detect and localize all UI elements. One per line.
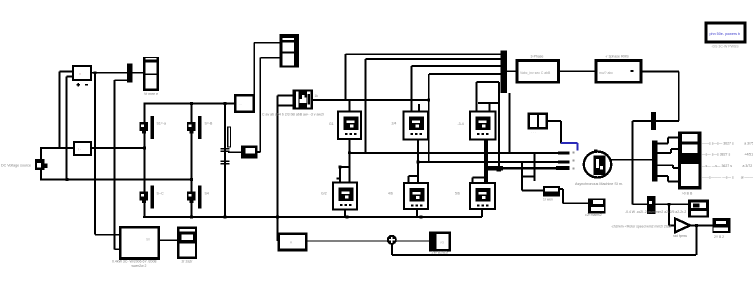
svg-text:3-Phase: 3-Phase bbox=[530, 55, 543, 59]
svg-text:-DS 3C-W PWSS: -DS 3C-W PWSS bbox=[711, 45, 739, 49]
svg-text:v: v bbox=[79, 71, 81, 76]
svg-text:S=-B: S=-B bbox=[205, 122, 214, 126]
svg-text:wwm2w 2: wwm2w 2 bbox=[132, 264, 147, 268]
svg-text:vG: vG bbox=[440, 241, 445, 245]
svg-text:S--C: S--C bbox=[157, 192, 165, 196]
svg-text:0.4kW 3C- W/2006 6Y /2008: 0.4kW 3C- W/2006 6Y /2008 bbox=[112, 259, 157, 263]
svg-text:—s— —s— 3627 s a 3/72: —s— —s— 3627 s a 3/72 bbox=[702, 164, 752, 168]
svg-text:——s——— —s— s al —–——: ——s——— —s— s al —–—— bbox=[702, 176, 753, 180]
svg-text:G/2: G/2 bbox=[321, 192, 327, 196]
svg-text:—s— s—s 3827 s +4/51: —s— s—s 3827 s +4/51 bbox=[702, 153, 753, 157]
svg-text:-r 3phase RMS: -r 3phase RMS bbox=[605, 55, 629, 59]
svg-text:rad fpmw: rad fpmw bbox=[673, 234, 687, 238]
svg-text:-3-4: -3-4 bbox=[458, 122, 464, 126]
svg-text:——s s—s— 3627 s a 3/75: ——s s—s— 3627 s a 3/75 bbox=[702, 142, 753, 146]
svg-text:c2r mams2: c2r mams2 bbox=[585, 213, 602, 217]
svg-text:. . .: . . . bbox=[531, 130, 536, 134]
svg-text:<Rotor speed wm2 mm2/ 2ta2l: <Rotor speed wm2 mm2/ 2ta2l bbox=[625, 225, 672, 229]
svg-text:Vabc_inv sec C abB: Vabc_inv sec C abB bbox=[520, 71, 551, 75]
svg-text:SII: SII bbox=[146, 238, 150, 242]
svg-text:S1=-a: S1=-a bbox=[157, 122, 166, 126]
svg-text:Vr mee e: Vr mee e bbox=[144, 92, 158, 96]
svg-text:Asynchronous Machine SI m.: Asynchronous Machine SI m. bbox=[575, 182, 623, 186]
svg-text:>0 B B: >0 B B bbox=[682, 192, 693, 196]
svg-text:S4: S4 bbox=[205, 192, 209, 196]
svg-text:C av ab ab4 b 2/3 bB abB aw-: C av ab ab4 b 2/3 bB abB aw- -3 v aw2r bbox=[262, 112, 325, 116]
svg-text:DC Voltage source: DC Voltage source bbox=[1, 164, 31, 168]
svg-text:2r 2a2r: 2r 2a2r bbox=[181, 259, 193, 263]
svg-text:2W B2/B2r: 2W B2/B2r bbox=[432, 250, 450, 254]
svg-text:-ch2/wm-: -ch2/wm- bbox=[611, 225, 625, 229]
svg-text:...: ... bbox=[239, 102, 242, 106]
svg-text:phn 50e- powers b: phn 50e- powers b bbox=[710, 32, 741, 36]
svg-text:1k: 1k bbox=[315, 94, 319, 98]
svg-text:4/6: 4/6 bbox=[388, 192, 393, 196]
svg-text:1r wen: 1r wen bbox=[543, 197, 553, 201]
svg-text:-0.4 W .cc2l..2 pwm mm2 a2l 2/: -0.4 W .cc2l..2 pwm mm2 a2l 2/5 a2-2r-2 bbox=[625, 210, 686, 214]
svg-text:5/6: 5/6 bbox=[455, 192, 460, 196]
svg-text:2/4: 2/4 bbox=[392, 122, 397, 126]
svg-text:2Y B 2: 2Y B 2 bbox=[714, 235, 724, 239]
svg-text:G1: G1 bbox=[329, 122, 334, 126]
svg-text:mu/? abc: mu/? abc bbox=[599, 71, 613, 75]
